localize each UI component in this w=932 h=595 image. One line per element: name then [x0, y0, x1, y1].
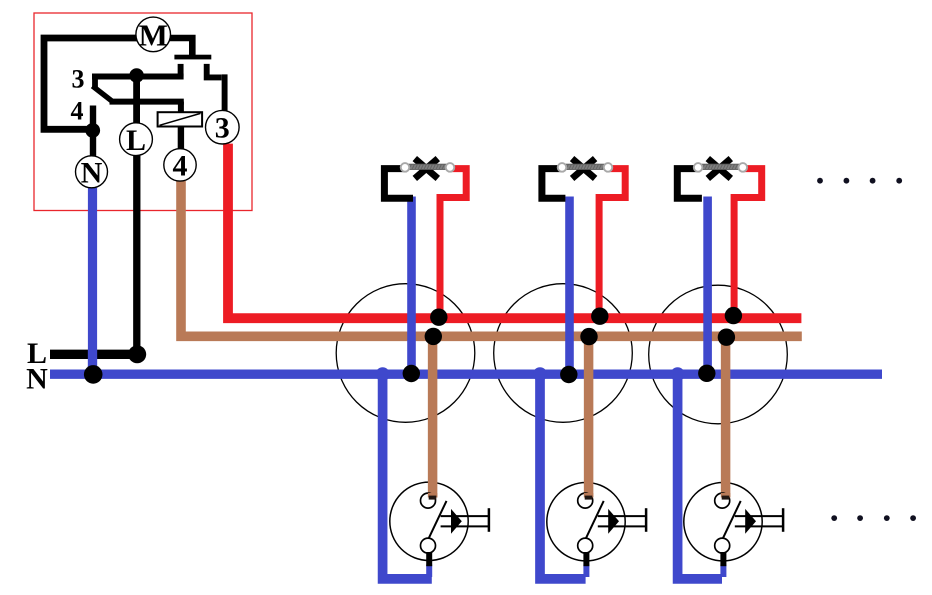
svg-text:3: 3 — [215, 112, 230, 145]
svg-text:3: 3 — [72, 65, 85, 94]
svg-text:M: M — [139, 17, 168, 52]
svg-text:4: 4 — [71, 97, 84, 126]
svg-text:N: N — [26, 362, 48, 395]
svg-text:4: 4 — [173, 149, 188, 182]
svg-text:L: L — [126, 124, 146, 157]
svg-text:N: N — [81, 156, 103, 189]
